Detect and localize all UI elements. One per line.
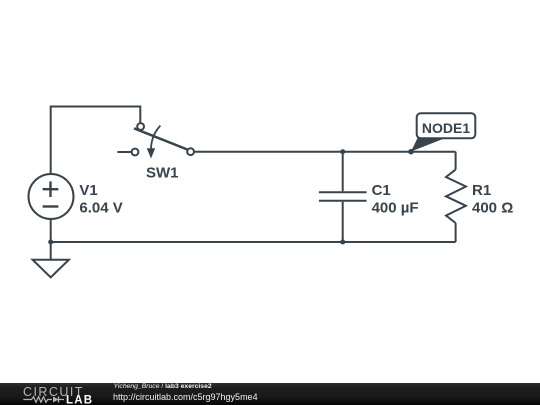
node NODE1 junction dot [408, 149, 414, 155]
voltage source V1 [29, 174, 74, 219]
wire R1 bottom lead [455, 223, 457, 242]
resistor R1 [446, 170, 466, 223]
wire C1 top lead [342, 152, 344, 192]
wire V1 bottom lead [50, 219, 52, 242]
svg-text:400 µF: 400 µF [372, 200, 419, 217]
svg-text:NODE1: NODE1 [422, 120, 470, 136]
capacitor C1 [319, 192, 367, 201]
footer bar [0, 383, 540, 405]
ground [33, 242, 69, 277]
wire bottom rail [51, 241, 456, 243]
svg-text:6.04 V: 6.04 V [79, 200, 122, 217]
footer credit text [114, 383, 212, 390]
junction dot V1 bottom rail [48, 240, 53, 245]
svg-text:R1: R1 [472, 182, 491, 199]
junction dot C1 bottom [340, 240, 345, 245]
wire R1 top lead [455, 152, 457, 170]
switch SW1 [132, 123, 194, 158]
svg-text:400 Ω: 400 Ω [472, 200, 513, 217]
wire switch throw to R1 top [194, 151, 456, 153]
junction dot C1 top [340, 149, 345, 154]
svg-text:V1: V1 [79, 182, 97, 199]
CircuitLab logo [22, 384, 102, 405]
svg-text:SW1: SW1 [146, 165, 179, 182]
wire SW1 open throw stub [117, 151, 131, 153]
wire V1 top to switch pole [51, 107, 141, 176]
wire C1 bottom lead [342, 202, 344, 242]
footer url [113, 392, 258, 402]
svg-text:LAB: LAB [66, 395, 93, 405]
node NODE1 flag [411, 113, 475, 151]
svg-text:C1: C1 [372, 182, 391, 199]
